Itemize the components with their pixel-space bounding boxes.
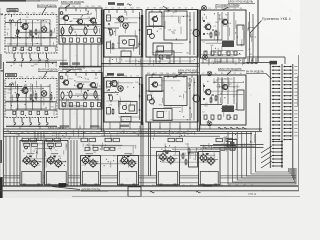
svg-text:R21: R21 [179,73,182,75]
svg-text:R9: R9 [41,97,43,99]
svg-text:R7: R7 [33,132,35,134]
svg-text:C4: C4 [51,77,53,79]
svg-text:10k: 10k [117,43,120,45]
svg-text:R15: R15 [39,161,42,163]
svg-text:R21: R21 [92,71,95,73]
svg-text:R12: R12 [20,77,23,79]
svg-text:R4: R4 [202,8,204,10]
svg-text:C22: C22 [96,132,99,134]
svg-text:C15: C15 [32,13,35,15]
svg-text:С18: С18 [44,21,47,23]
svg-text:С2: С2 [184,92,186,94]
svg-text:R9: R9 [128,22,130,24]
svg-text:R3: R3 [88,159,90,161]
svg-text:R4: R4 [173,33,175,35]
svg-text:С2: С2 [172,8,174,10]
svg-text:R7: R7 [166,136,168,138]
svg-text:L3: L3 [77,132,79,134]
svg-text:R9: R9 [117,86,119,88]
svg-text:R17: R17 [60,19,63,21]
svg-text:С2: С2 [233,119,235,121]
svg-text:VD1: VD1 [98,6,102,8]
svg-text:R21: R21 [147,73,150,75]
svg-text:VD1: VD1 [94,78,98,80]
svg-text:C9: C9 [250,142,252,144]
svg-text:C4: C4 [51,37,53,39]
svg-text:10k: 10k [125,18,128,20]
svg-text:C4: C4 [27,132,29,134]
svg-text:L3: L3 [32,77,34,79]
svg-text:С18: С18 [85,6,88,8]
svg-text:10k: 10k [210,45,213,47]
svg-text:1к: 1к [55,150,57,152]
svg-text:L3: L3 [13,77,15,79]
svg-text:C22: C22 [185,144,188,146]
svg-text:C4: C4 [90,132,92,134]
svg-text:R17: R17 [246,144,249,146]
svg-text:R7: R7 [221,111,223,113]
svg-text:R12: R12 [207,23,210,25]
svg-text:C4: C4 [190,30,192,32]
svg-text:C9: C9 [105,8,107,10]
svg-text:1к: 1к [145,132,147,134]
svg-text:10k: 10k [45,13,48,15]
svg-text:C9: C9 [117,63,119,65]
svg-text:R12: R12 [160,8,163,10]
svg-text:L3: L3 [191,8,193,10]
svg-text:C15: C15 [93,136,96,138]
svg-text:VD1: VD1 [111,49,115,51]
svg-text:L3: L3 [126,119,128,121]
svg-text:10k: 10k [21,132,24,134]
svg-text:C4: C4 [218,15,220,17]
svg-text:С18: С18 [66,6,69,8]
svg-text:C4: C4 [183,153,185,155]
svg-text:С2: С2 [111,76,113,78]
svg-text:R12: R12 [232,51,235,53]
svg-text:С18: С18 [160,73,163,75]
svg-text:C22: C22 [71,132,74,134]
svg-text:R15: R15 [70,25,73,27]
svg-text:C7: C7 [40,132,42,134]
svg-text:L3: L3 [188,79,190,81]
svg-text:R9: R9 [45,77,47,79]
svg-text:С2: С2 [11,51,13,53]
svg-text:R21: R21 [227,73,230,75]
svg-text:R17: R17 [21,27,24,29]
svg-text:R3: R3 [233,110,235,112]
svg-text:C22: C22 [98,71,101,73]
svg-text:C4: C4 [43,137,45,139]
svg-text:VD1: VD1 [206,121,210,123]
svg-text:R15: R15 [130,155,133,157]
svg-text:C4: C4 [33,150,35,152]
svg-text:С18: С18 [208,73,211,75]
svg-text:VT2: VT2 [50,107,53,109]
svg-text:R3: R3 [164,132,166,134]
svg-text:R17: R17 [137,8,140,10]
svg-text:R17: R17 [153,73,156,75]
svg-text:С2: С2 [77,102,79,104]
svg-text:C22: C22 [58,156,61,158]
svg-text:R3: R3 [23,89,25,91]
svg-text:R17: R17 [215,22,218,24]
svg-text:C9: C9 [26,77,28,79]
svg-text:VD1: VD1 [250,37,254,39]
svg-text:1к: 1к [215,73,217,75]
svg-text:R7: R7 [110,105,112,107]
svg-text:R7: R7 [46,132,48,134]
svg-text:R15: R15 [34,64,37,66]
svg-text:VD1: VD1 [191,153,195,155]
svg-text:С2: С2 [202,111,204,113]
svg-text:L3: L3 [165,111,167,113]
svg-text:R17: R17 [26,13,29,15]
svg-text:C4: C4 [221,8,223,10]
svg-text:L3: L3 [113,155,115,157]
svg-text:VT2: VT2 [203,147,206,149]
svg-text:C4: C4 [111,8,113,10]
svg-text:R4: R4 [20,13,22,15]
svg-text:R17: R17 [26,50,29,52]
svg-text:R9: R9 [120,132,122,134]
svg-text:C7: C7 [79,22,81,24]
svg-text:1к: 1к [229,106,231,108]
svg-text:VD1: VD1 [124,76,128,78]
svg-text:Приемник УКВ-4: Приемник УКВ-4 [262,17,291,21]
svg-text:R9: R9 [47,86,49,88]
svg-text:C9: C9 [234,8,236,10]
svg-text:C4: C4 [9,92,11,94]
svg-text:C4: C4 [185,8,187,10]
svg-text:VT2: VT2 [159,105,162,107]
svg-text:10k: 10k [19,65,22,67]
svg-text:R21: R21 [166,8,169,10]
svg-text:L3: L3 [126,132,128,134]
svg-text:C4: C4 [14,22,16,24]
svg-text:L3: L3 [147,8,149,10]
svg-text:VD1: VD1 [191,73,195,75]
svg-text:C15: C15 [127,113,130,115]
svg-text:L3: L3 [85,71,87,73]
svg-text:C9: C9 [227,8,229,10]
svg-text:C4: C4 [179,160,181,162]
svg-text:L3: L3 [124,8,126,10]
svg-text:R17: R17 [52,135,55,137]
svg-text:С18: С18 [168,30,171,32]
svg-text:C4: C4 [150,93,152,95]
svg-text:C7: C7 [122,120,124,122]
svg-text:С2: С2 [152,132,154,134]
svg-text:R4: R4 [177,132,179,134]
svg-text:C7: C7 [212,120,214,122]
svg-text:VT2: VT2 [14,132,17,134]
svg-text:1к: 1к [193,158,195,160]
svg-text:R12: R12 [66,71,69,73]
svg-text:1к: 1к [50,150,52,152]
svg-text:C7: C7 [13,64,15,66]
svg-text:R21: R21 [103,132,106,134]
svg-text:C9: C9 [248,49,250,51]
svg-text:С2: С2 [208,8,210,10]
svg-text:R3: R3 [93,152,95,154]
svg-text:10k: 10k [228,23,231,25]
svg-text:R15: R15 [206,60,209,62]
svg-text:C4: C4 [215,8,217,10]
svg-text:R9: R9 [221,73,223,75]
svg-text:R4: R4 [240,8,242,10]
svg-text:R3: R3 [153,8,155,10]
svg-text:R12: R12 [139,132,142,134]
svg-text:10k: 10k [186,52,189,54]
svg-text:L3: L3 [116,133,118,135]
svg-text:R15: R15 [221,144,224,146]
svg-text:R7: R7 [185,73,187,75]
svg-text:С2: С2 [118,148,120,150]
svg-text:R3: R3 [61,30,63,32]
svg-text:VD1: VD1 [225,52,229,54]
svg-text:R9: R9 [118,76,120,78]
svg-text:R17: R17 [36,165,39,167]
svg-text:C22: C22 [8,89,11,91]
svg-text:R4: R4 [73,6,75,8]
svg-text:L3: L3 [7,29,9,31]
svg-text:R4: R4 [58,132,60,134]
svg-text:L3: L3 [43,25,45,27]
svg-text:R21: R21 [209,159,212,161]
svg-text:C9: C9 [84,132,86,134]
svg-text:R15: R15 [183,132,186,134]
svg-text:R17: R17 [229,84,232,86]
svg-text:L3: L3 [13,83,15,85]
svg-text:C9: C9 [60,6,62,8]
svg-text:C7: C7 [122,130,124,132]
svg-text:VD1: VD1 [109,30,113,32]
svg-text:С18: С18 [86,79,89,81]
svg-text:С18: С18 [8,85,11,87]
svg-text:R7: R7 [173,12,175,14]
svg-text:C9: C9 [118,8,120,10]
svg-text:R4: R4 [17,134,19,136]
svg-text:C9: C9 [137,76,139,78]
svg-text:C22: C22 [79,71,82,73]
svg-text:C15: C15 [105,76,108,78]
svg-text:R7: R7 [84,150,86,152]
svg-text:R4: R4 [9,24,11,26]
svg-text:C22: C22 [60,71,63,73]
svg-text:L3: L3 [171,87,173,89]
svg-text:R17: R17 [92,6,95,8]
svg-text:10k: 10k [166,73,169,75]
svg-text:C7: C7 [202,73,204,75]
svg-text:R9: R9 [168,63,170,65]
svg-text:VD1: VD1 [172,73,176,75]
svg-text:VT2: VT2 [73,71,76,73]
svg-text:С2: С2 [63,64,65,66]
svg-text:C7: C7 [79,6,81,8]
svg-text:C22: C22 [224,26,227,28]
svg-text:R7: R7 [224,79,226,81]
svg-text:C9: C9 [13,38,15,40]
svg-text:R15: R15 [67,35,70,37]
svg-text:10k: 10k [179,96,182,98]
svg-text:R9: R9 [179,8,181,10]
svg-text:C15: C15 [159,29,162,31]
svg-text:R17: R17 [214,82,217,84]
svg-text:R3: R3 [7,77,9,79]
svg-text:R3: R3 [235,64,237,66]
svg-text:С18: С18 [189,132,192,134]
svg-text:R21: R21 [234,139,237,141]
svg-text:C9: C9 [13,13,15,15]
svg-text:10k: 10k [93,22,96,24]
svg-text:С18: С18 [170,132,173,134]
svg-text:C15: C15 [136,134,139,136]
svg-text:R9: R9 [63,137,65,139]
svg-text:C9: C9 [26,17,28,19]
svg-text:R17: R17 [242,63,245,65]
svg-text:С18: С18 [77,77,80,79]
svg-text:C22: C22 [96,99,99,101]
svg-text:10k: 10k [7,13,10,15]
svg-text:С2: С2 [214,26,216,28]
svg-text:R15: R15 [223,138,226,140]
svg-text:VD1: VD1 [133,132,137,134]
svg-text:С18: С18 [82,165,85,167]
svg-text:R15: R15 [138,61,141,63]
svg-text:C15: C15 [195,149,198,151]
svg-text:C7: C7 [62,79,64,81]
svg-text:С2: С2 [108,95,110,97]
svg-text:C9: C9 [26,148,28,150]
svg-text:R21: R21 [204,105,207,107]
svg-text:10k: 10k [135,82,138,84]
svg-text:R17: R17 [69,78,72,80]
svg-text:R12: R12 [130,8,133,10]
svg-text:С18: С18 [69,42,72,44]
svg-text:R15: R15 [217,62,220,64]
svg-text:VD1: VD1 [96,26,100,28]
svg-text:ОТВ.12: ОТВ.12 [248,193,257,196]
svg-text:L3: L3 [123,50,125,52]
svg-text:L3: L3 [148,64,150,66]
svg-text:VD1: VD1 [121,40,125,42]
svg-text:C4: C4 [39,13,41,15]
svg-text:C4: C4 [202,41,204,43]
svg-text:R9: R9 [65,132,67,134]
svg-text:C7: C7 [109,64,111,66]
svg-text:R3: R3 [46,114,48,116]
svg-text:R4: R4 [69,137,71,139]
svg-text:C4: C4 [84,157,86,159]
svg-text:R4: R4 [225,15,227,17]
svg-text:C15: C15 [8,132,11,134]
svg-text:C7: C7 [112,33,114,35]
svg-text:R15: R15 [158,85,161,87]
svg-text:С18: С18 [52,132,55,134]
svg-text:10k: 10k [158,62,161,64]
svg-text:L3: L3 [130,76,132,78]
svg-text:VD1: VD1 [39,77,43,79]
svg-text:R3: R3 [60,66,62,68]
svg-text:R15: R15 [51,13,54,15]
svg-text:R3: R3 [214,52,216,54]
svg-text:R15: R15 [158,132,161,134]
svg-text:C9: C9 [88,17,90,19]
svg-text:R21: R21 [29,164,32,166]
svg-text:1к: 1к [240,73,242,75]
svg-text:C9: C9 [234,73,236,75]
